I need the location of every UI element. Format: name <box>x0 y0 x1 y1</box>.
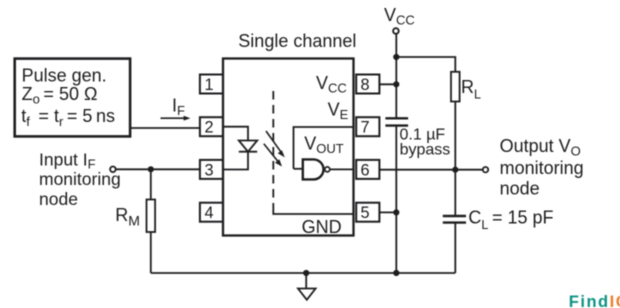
pin 3 <box>200 160 223 179</box>
output terminal circle <box>483 167 488 172</box>
wire input terminal to pin 3 <box>116 168 200 170</box>
svg-text:7: 7 <box>360 119 369 137</box>
LED D1 wire to pin 3 <box>223 152 248 170</box>
wire pin 6 to output terminal <box>380 169 483 171</box>
pin 5 <box>356 203 379 222</box>
ground symbol <box>298 273 316 300</box>
svg-text:Pulse gen.: Pulse gen. <box>22 65 107 85</box>
IC body U1 <box>223 59 354 236</box>
light emission arrow 1 <box>266 131 285 157</box>
NAND gate U1 output stage <box>303 159 324 179</box>
input terminal circle <box>110 167 116 173</box>
resistor RL body <box>451 72 460 102</box>
svg-text:Single channel: Single channel <box>238 31 356 51</box>
svg-text:node: node <box>500 178 540 198</box>
svg-text:5: 5 <box>360 204 369 222</box>
wire RM to bottom rail <box>150 232 152 273</box>
node output junction <box>452 167 458 173</box>
svg-text:monitoring: monitoring <box>500 158 584 178</box>
pin 6 <box>356 160 379 179</box>
wire pin 5 to VCC/GND line <box>380 211 397 213</box>
svg-text:1: 1 <box>204 76 213 94</box>
wire junction to RM <box>150 169 152 199</box>
bypass capacitor plates <box>385 118 408 125</box>
svg-text:bypass: bypass <box>400 142 451 159</box>
node ground stub <box>303 270 309 276</box>
wire pulse gen to pin 2 <box>130 127 200 129</box>
VCC terminal circle <box>393 28 399 34</box>
arrow IF <box>161 116 191 121</box>
wire bubble to pin 6 <box>330 168 353 170</box>
light emission arrow 2 <box>264 144 282 167</box>
node VCC/RL branch <box>393 54 399 60</box>
bottom ground rail <box>151 272 456 274</box>
pin 1 <box>200 75 223 94</box>
pin 2 <box>200 117 223 136</box>
svg-text:Output VO: Output VO <box>500 136 581 159</box>
node bypass line to rail <box>393 270 399 276</box>
svg-text:3: 3 <box>204 161 213 179</box>
svg-text:monitoring: monitoring <box>39 169 121 189</box>
node RM junction <box>148 166 154 172</box>
wire CL top to output wire <box>454 170 456 216</box>
pin 8 <box>356 75 379 94</box>
load capacitor CL plates <box>443 216 466 223</box>
NAND gate output bubble <box>325 167 330 172</box>
node pin 5 junction <box>393 209 399 215</box>
svg-text:4: 4 <box>204 204 213 222</box>
pulse generator box <box>15 59 130 137</box>
svg-text:6: 6 <box>360 161 369 179</box>
VCC vertical wire <box>395 35 397 119</box>
internal ground return line <box>273 206 353 215</box>
output stage box VOUT <box>294 127 354 169</box>
LED D1 triangle <box>239 141 257 152</box>
pin 7 <box>356 117 379 136</box>
svg-text:node: node <box>39 189 78 209</box>
node pin 8 junction <box>393 81 399 87</box>
pin 4 <box>200 203 223 222</box>
wire pin 8 to VCC line <box>380 83 397 85</box>
wire CL bottom to bottom rail <box>454 223 456 273</box>
svg-text:tf = tr = 5 ns: tf = tr = 5 ns <box>21 106 115 129</box>
svg-text:8: 8 <box>360 76 369 94</box>
svg-text:FindIC: FindIC <box>569 293 620 308</box>
svg-text:2: 2 <box>204 119 213 137</box>
wire bypass cap down to bottom rail <box>395 126 397 273</box>
LED D1 cathode bar <box>239 151 257 153</box>
NAND gate input wire <box>294 168 303 170</box>
resistor RM body <box>147 200 156 233</box>
optical isolation barrier dashed line <box>272 91 274 206</box>
LED D1 wire from pin 2 <box>223 127 248 141</box>
svg-text:GND: GND <box>302 217 342 237</box>
wire branch to RL <box>396 57 455 72</box>
wire RL to output node <box>454 102 456 170</box>
